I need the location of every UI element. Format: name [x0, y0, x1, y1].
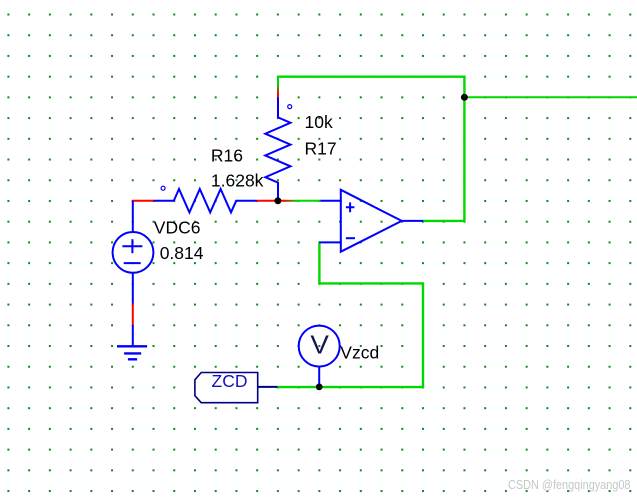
ZCD label tag	[195, 371, 278, 403]
wire red: VDC6 bottom to ground	[132, 304, 134, 325]
wire blend red-green right of node A	[284, 200, 298, 202]
resistor R17	[265, 97, 291, 200]
voltmeter Vzcd	[299, 326, 340, 387]
wire red: R16 right to node A	[257, 200, 285, 202]
svg-text:ZCD: ZCD	[212, 371, 248, 391]
node A junction dot	[274, 197, 281, 204]
voltage source VDC6	[113, 201, 154, 304]
svg-text:1.628k: 1.628k	[211, 170, 264, 190]
wire green: inverting input feedback path down to bottom rail	[278, 243, 424, 387]
svg-text:10k: 10k	[305, 112, 333, 132]
svg-text:VDC6: VDC6	[154, 218, 201, 238]
resistor R16	[154, 186, 257, 212]
node output junction dot	[461, 94, 468, 101]
svg-text:CSDN @fengqingyang08: CSDN @fengqingyang08	[508, 477, 631, 492]
wire green: node A to op-amp plus input	[297, 200, 320, 202]
wire red: VDC6 top to R16 left	[132, 200, 154, 202]
svg-text:R16: R16	[211, 145, 243, 165]
wire red: R17 top segment	[277, 85, 279, 97]
wire green: top feedback from R17 to right vertical and down to op-amp output	[277, 77, 464, 221]
svg-text:R17: R17	[305, 139, 337, 159]
wire green: R17 top over red	[277, 76, 279, 85]
wire green: output to right edge	[464, 96, 637, 98]
svg-text:Vzcd: Vzcd	[340, 343, 379, 363]
op-amp U1	[319, 190, 423, 252]
wire blend green-red on R17 top	[277, 84, 279, 94]
ground	[117, 325, 147, 359]
svg-text:0.814: 0.814	[160, 243, 204, 263]
node bottom junction dot	[316, 384, 323, 391]
svg-text:V: V	[310, 330, 329, 360]
